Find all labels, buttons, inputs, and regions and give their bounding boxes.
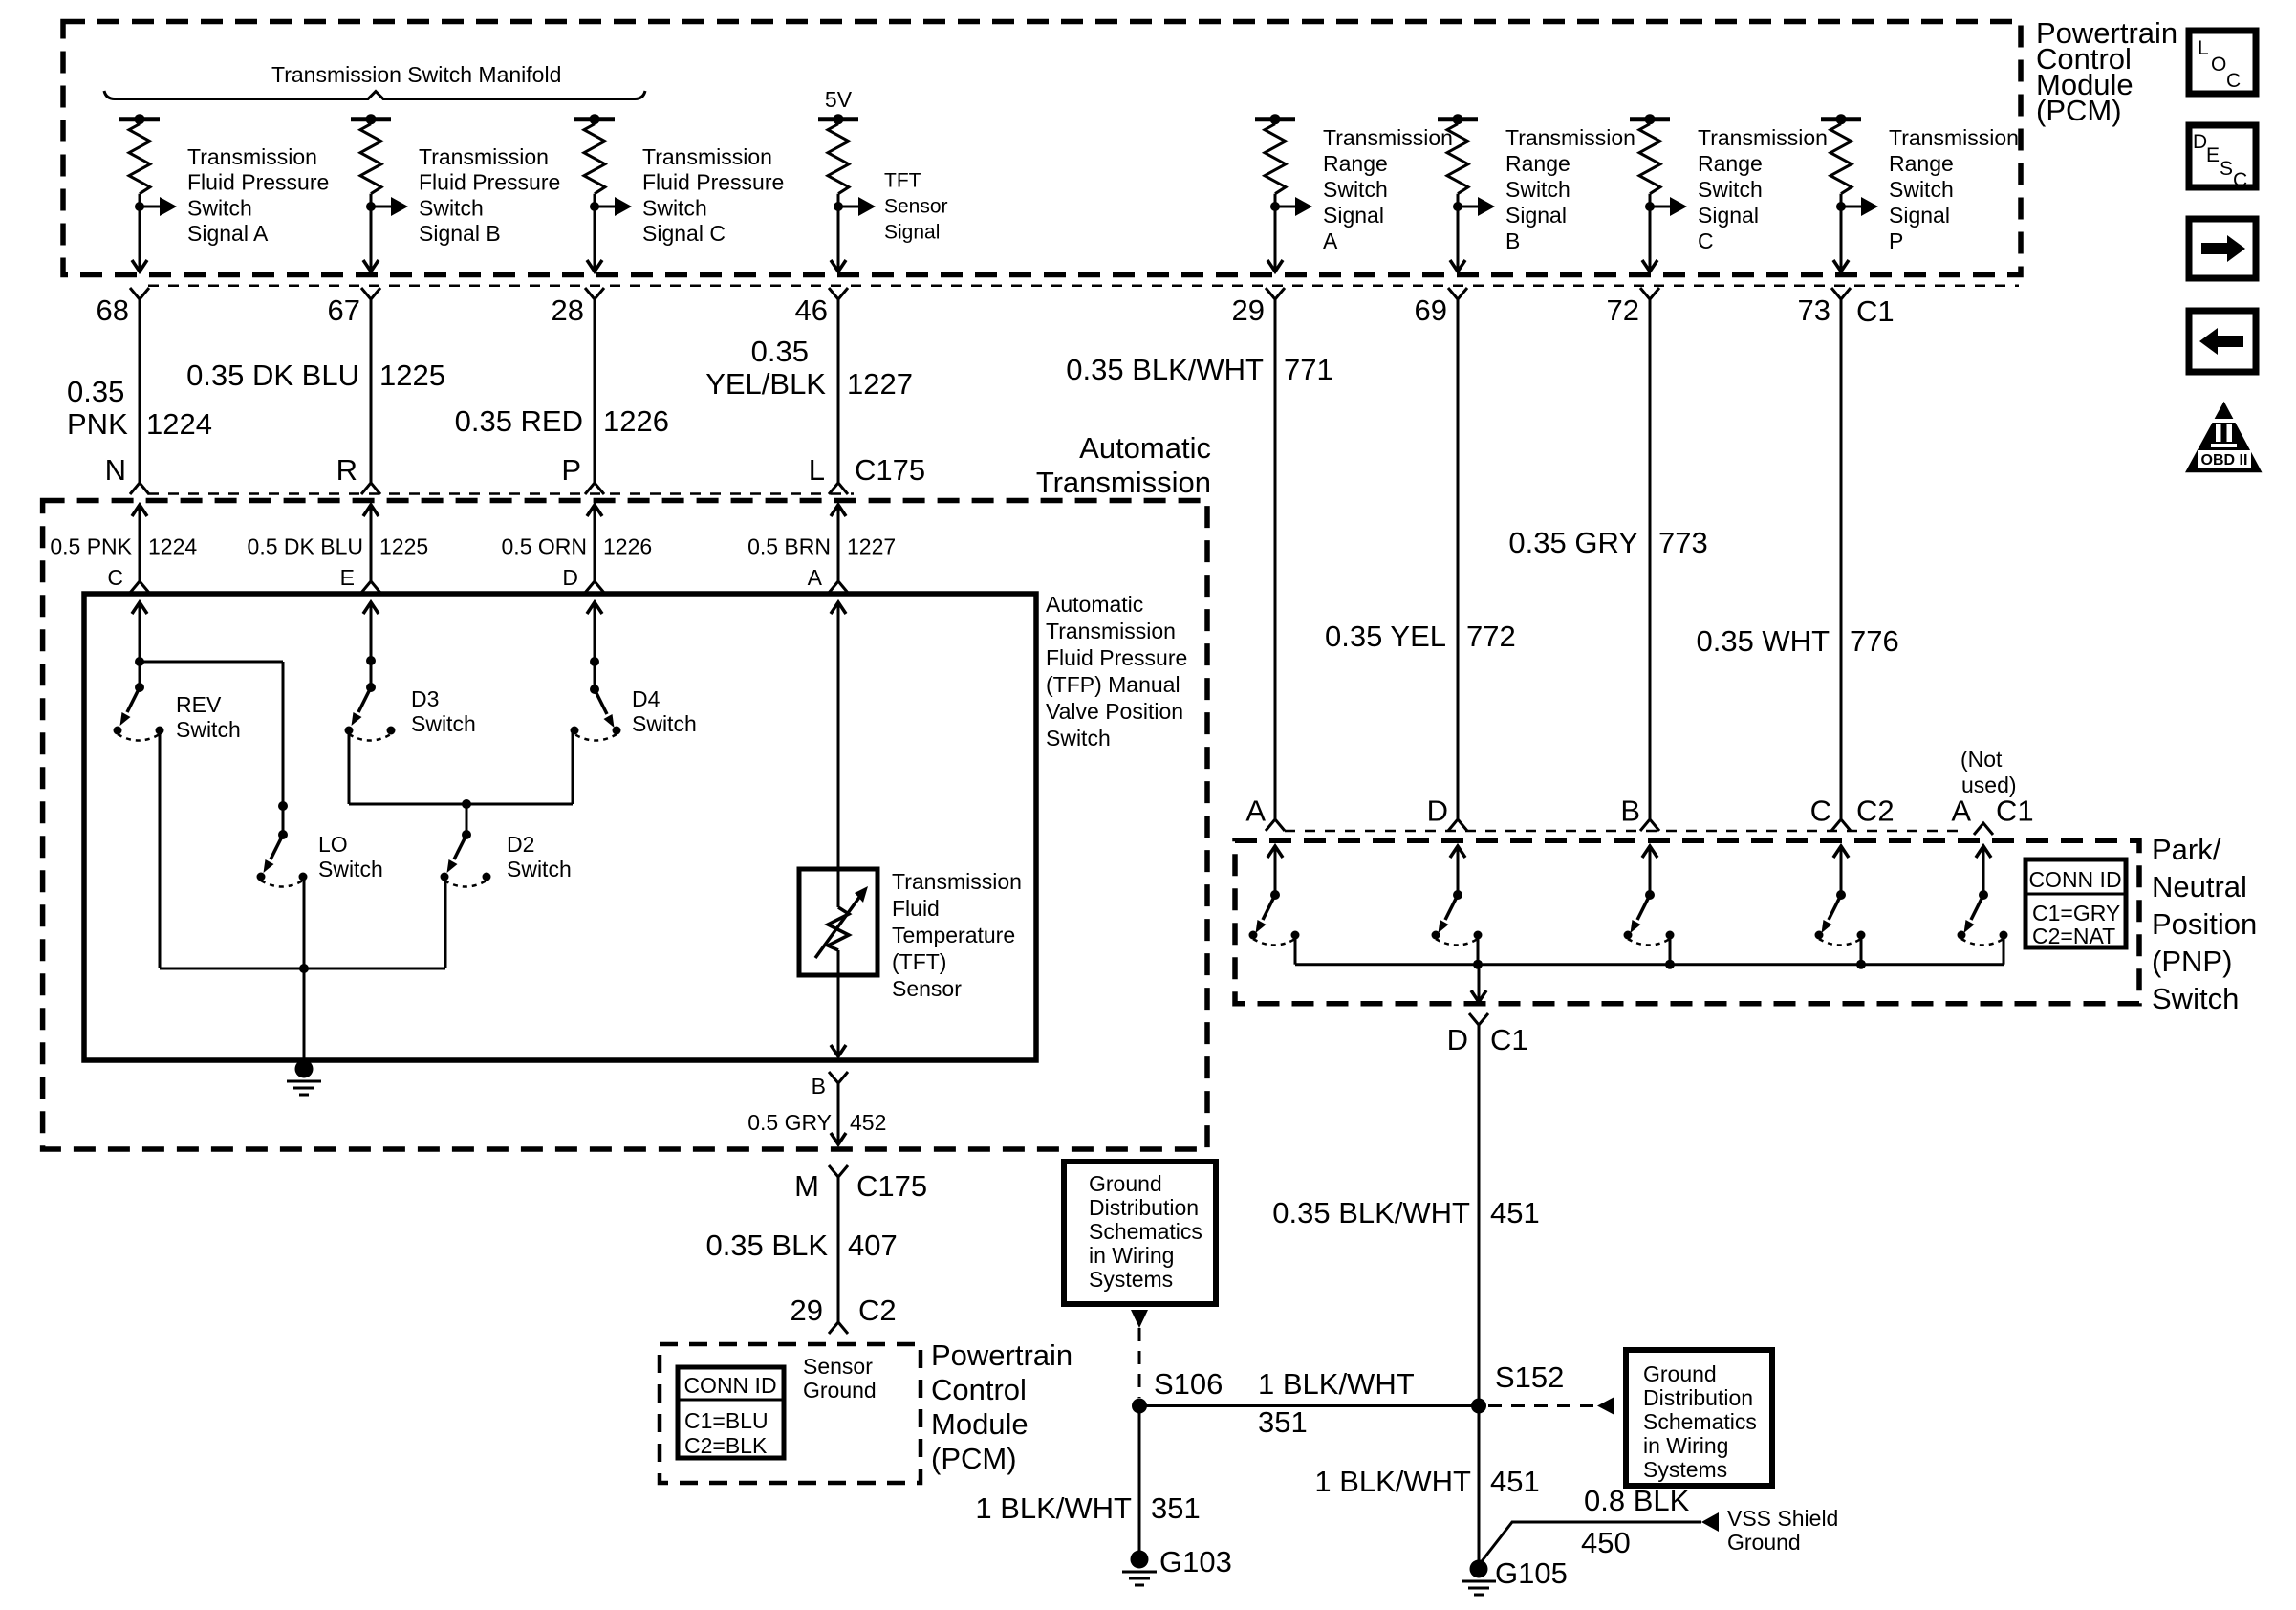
svg-text:Signal: Signal <box>1698 203 1759 228</box>
ground G103 <box>1131 1551 1149 1569</box>
svg-text:Fluid Pressure: Fluid Pressure <box>187 170 329 195</box>
resistor R TRS signal A at x=1334 <box>1255 117 1295 121</box>
wire 0.8 BLK 450 VSS shield <box>1479 1522 1701 1565</box>
svg-text:YEL/BLK: YEL/BLK <box>705 367 826 401</box>
wire TFT output down <box>837 975 840 1056</box>
svg-text:0.35: 0.35 <box>67 375 124 408</box>
svg-text:Automatic: Automatic <box>1079 431 1211 465</box>
splice S152 <box>1471 1399 1486 1414</box>
connector M C175 below AT box <box>829 1165 848 1177</box>
svg-text:Switch: Switch <box>642 195 707 220</box>
CONN ID box (PCM) <box>678 1367 784 1458</box>
svg-text:C175: C175 <box>856 1169 927 1203</box>
wire 3 into TFP box <box>594 602 596 662</box>
resistor R TRS signal P at x=1926 <box>1821 117 1861 121</box>
svg-text:0.35 DK BLU: 0.35 DK BLU <box>186 359 359 392</box>
svg-text:in Wiring: in Wiring <box>1643 1433 1728 1458</box>
svg-text:C2: C2 <box>858 1294 897 1327</box>
svg-text:B: B <box>812 1074 826 1099</box>
svg-text:Switch: Switch <box>318 857 383 881</box>
svg-text:(PCM): (PCM) <box>931 1442 1017 1475</box>
svg-text:Distribution: Distribution <box>1089 1195 1199 1220</box>
wire 0.5 DK BLU 1225 entering AT box <box>370 505 373 581</box>
svg-text:771: 771 <box>1284 353 1333 386</box>
wire 1 into TFP box <box>139 602 141 662</box>
svg-text:Range: Range <box>1505 151 1570 176</box>
svg-text:C1=BLU: C1=BLU <box>684 1408 769 1433</box>
svg-text:0.35 RED: 0.35 RED <box>455 404 583 438</box>
svg-text:Range: Range <box>1889 151 1954 176</box>
TFT sensor box <box>799 869 877 975</box>
connector fork + pin 67 <box>361 288 380 299</box>
svg-text:A: A <box>1323 228 1338 253</box>
resistor R TFP signal B at x=388 <box>351 117 391 121</box>
svg-text:Ground: Ground <box>1727 1530 1801 1555</box>
svg-text:Switch: Switch <box>2152 982 2239 1015</box>
svg-text:VSS Shield: VSS Shield <box>1727 1506 1838 1531</box>
TFP Manual Valve Position Switch box <box>84 594 1036 1060</box>
svg-text:0.8 BLK: 0.8 BLK <box>1584 1484 1690 1517</box>
wire 0.35 BLK 407 <box>837 1177 840 1322</box>
svg-text:D: D <box>1447 1023 1468 1056</box>
svg-text:C: C <box>2233 169 2247 191</box>
svg-text:1227: 1227 <box>847 534 896 559</box>
svg-text:C: C <box>2226 70 2241 92</box>
PNP switch 1 <box>1274 846 1277 895</box>
svg-text:Transmission: Transmission <box>1323 125 1453 150</box>
svg-text:407: 407 <box>848 1229 898 1262</box>
wire segment x=1926 to PNP <box>1840 299 1843 819</box>
svg-text:Switch: Switch <box>419 195 484 220</box>
wire 0.5 ORN 1226 entering AT box <box>594 505 596 581</box>
PNP output arrow to box edge <box>1478 965 1481 1002</box>
svg-text:0.5 GRY: 0.5 GRY <box>747 1110 832 1135</box>
svg-text:Signal A: Signal A <box>187 221 269 246</box>
svg-text:(TFT): (TFT) <box>892 949 946 974</box>
svg-text:R: R <box>336 453 357 487</box>
svg-text:5V: 5V <box>825 87 853 112</box>
svg-text:1226: 1226 <box>603 404 669 438</box>
svg-text:1 BLK/WHT: 1 BLK/WHT <box>975 1491 1132 1525</box>
PCM (sensor ground) dashed box <box>660 1344 921 1483</box>
svg-text:Sensor: Sensor <box>803 1354 873 1379</box>
svg-text:Neutral: Neutral <box>2152 870 2247 903</box>
connector fork + pin 29 <box>1266 288 1285 299</box>
svg-text:Switch: Switch <box>507 857 572 881</box>
svg-text:(PCM): (PCM) <box>2036 94 2122 127</box>
svg-text:1227: 1227 <box>847 367 913 401</box>
svg-text:0.5 ORN: 0.5 ORN <box>502 534 587 559</box>
svg-text:1226: 1226 <box>603 534 652 559</box>
svg-text:1 BLK/WHT: 1 BLK/WHT <box>1258 1367 1415 1401</box>
svg-text:69: 69 <box>1415 294 1447 327</box>
wire S106 down to G103 (1 BLK/WHT 351) <box>1138 1406 1141 1552</box>
connector fork + pin 46 <box>829 288 848 299</box>
svg-text:C: C <box>1698 228 1714 253</box>
wire 2 into TFP box <box>370 602 373 661</box>
svg-text:PNK: PNK <box>67 407 128 441</box>
svg-text:Switch: Switch <box>632 711 697 736</box>
connector fork + pin 72 <box>1640 288 1659 299</box>
icon back arrow <box>2189 311 2256 372</box>
svg-text:E: E <box>2206 144 2220 166</box>
svg-text:Signal C: Signal C <box>642 221 726 246</box>
svg-text:Transmission: Transmission <box>892 869 1022 894</box>
svg-text:Switch: Switch <box>1323 177 1388 202</box>
ground (TFP case ground) <box>295 1060 314 1078</box>
svg-text:S106: S106 <box>1154 1367 1223 1401</box>
svg-text:72: 72 <box>1607 294 1639 327</box>
wire S152 down to G105 (1 BLK/WHT 451) <box>1478 1406 1481 1562</box>
svg-text:1224: 1224 <box>146 407 212 441</box>
svg-text:A: A <box>808 565 823 590</box>
svg-text:0.35 WHT: 0.35 WHT <box>1696 624 1830 658</box>
svg-text:E: E <box>340 565 355 590</box>
svg-text:0.35 GRY: 0.35 GRY <box>1508 526 1638 559</box>
svg-text:0.35: 0.35 <box>751 335 809 368</box>
Ground Distribution Schematics box 1 <box>1064 1162 1216 1304</box>
PNP output bus <box>1294 935 1297 965</box>
svg-text:C2=NAT: C2=NAT <box>2032 924 2115 948</box>
svg-text:Transmission: Transmission <box>1505 125 1635 150</box>
svg-text:Signal: Signal <box>884 222 940 244</box>
svg-text:452: 452 <box>850 1110 886 1135</box>
svg-text:451: 451 <box>1490 1465 1540 1498</box>
svg-text:46: 46 <box>795 294 828 327</box>
svg-text:Switch: Switch <box>1698 177 1763 202</box>
svg-text:0.5 BRN: 0.5 BRN <box>747 534 831 559</box>
svg-text:P: P <box>1889 228 1903 253</box>
splice S106 <box>1132 1399 1147 1414</box>
svg-text:C1=GRY: C1=GRY <box>2032 901 2120 925</box>
svg-text:Ground: Ground <box>803 1378 877 1403</box>
svg-text:C2: C2 <box>1856 794 1895 828</box>
svg-text:0.5 DK BLU: 0.5 DK BLU <box>248 534 363 559</box>
Park/Neutral Position (PNP) Switch dashed box <box>1235 840 2139 1003</box>
wire D2 output down <box>444 877 447 968</box>
svg-text:Ground: Ground <box>1089 1171 1162 1196</box>
svg-text:0.35 BLK/WHT: 0.35 BLK/WHT <box>1272 1196 1470 1229</box>
svg-text:TFT: TFT <box>884 170 921 192</box>
svg-text:G103: G103 <box>1159 1545 1232 1578</box>
svg-text:Switch: Switch <box>1505 177 1570 202</box>
wire segment x=1334 to PNP <box>1274 299 1277 819</box>
connector 29 C2 <box>829 1322 848 1334</box>
svg-text:B: B <box>1505 228 1520 253</box>
svg-text:D: D <box>2193 131 2207 153</box>
svg-text:S: S <box>2220 158 2233 180</box>
svg-text:Transmission: Transmission <box>642 144 772 169</box>
svg-text:Fluid Pressure: Fluid Pressure <box>1046 645 1187 670</box>
REV switch <box>139 662 141 687</box>
svg-text:C: C <box>1810 794 1831 828</box>
svg-text:0.35 YEL: 0.35 YEL <box>1325 620 1446 653</box>
svg-text:G105: G105 <box>1495 1556 1568 1590</box>
thin dashed connector line row 2 (C175) <box>148 492 854 495</box>
svg-text:O: O <box>2211 54 2226 76</box>
wire S106 to S152 (1 BLK/WHT 351) <box>1139 1404 1480 1407</box>
svg-text:(TFP) Manual: (TFP) Manual <box>1046 672 1180 697</box>
svg-text:A: A <box>1951 794 1971 828</box>
svg-text:0.35 BLK/WHT: 0.35 BLK/WHT <box>1066 353 1264 386</box>
junction dot wire1 branch <box>135 657 144 666</box>
wire segment x=388 rows1-2 <box>370 299 373 483</box>
wire segment x=1525 to PNP <box>1457 299 1460 819</box>
connector pin B below TFP box <box>829 1072 848 1083</box>
Powertrain Control Module (PCM) dashed box <box>63 22 2021 275</box>
svg-text:Fluid: Fluid <box>892 896 940 921</box>
svg-text:(PNP): (PNP) <box>2152 945 2232 978</box>
D3 switch <box>366 656 376 665</box>
svg-text:Automatic: Automatic <box>1046 592 1143 617</box>
svg-text:776: 776 <box>1850 624 1899 658</box>
wire 0.5 GRY 452 <box>837 1083 840 1144</box>
svg-text:D4: D4 <box>632 686 661 711</box>
wire branch to LO switch <box>140 661 283 664</box>
svg-text:A: A <box>1245 794 1266 828</box>
svg-text:Distribution: Distribution <box>1643 1385 1753 1410</box>
svg-text:LO: LO <box>318 832 348 857</box>
PNP switch 4 <box>1840 846 1843 895</box>
svg-text:Systems: Systems <box>1089 1267 1173 1292</box>
svg-text:Transmission: Transmission <box>419 144 549 169</box>
connector D C1 below PNP box <box>1469 1013 1488 1025</box>
svg-text:L: L <box>2198 37 2209 59</box>
svg-text:351: 351 <box>1258 1405 1308 1439</box>
resistor R TRS signal B at x=1525 <box>1438 117 1478 121</box>
wire segment x=877 rows1-2 <box>837 299 840 483</box>
svg-text:451: 451 <box>1490 1196 1540 1229</box>
svg-text:Systems: Systems <box>1643 1457 1727 1482</box>
icon LOC <box>2189 31 2256 94</box>
svg-text:C1: C1 <box>1996 794 2034 828</box>
resistor R TRS signal C at x=1726 <box>1630 117 1670 121</box>
svg-text:C1: C1 <box>1856 294 1895 328</box>
D2 switch <box>466 804 468 835</box>
svg-text:28: 28 <box>552 294 584 327</box>
TFT thermistor symbol <box>837 869 840 907</box>
dashed wire to S106 <box>1138 1328 1141 1398</box>
wire segment x=146 rows1-2 <box>139 299 141 483</box>
svg-text:0.35 BLK: 0.35 BLK <box>705 1229 828 1262</box>
svg-text:1225: 1225 <box>379 359 445 392</box>
LO switch <box>278 801 288 811</box>
svg-text:0.5 PNK: 0.5 PNK <box>50 534 132 559</box>
svg-text:Sensor: Sensor <box>884 196 948 218</box>
svg-text:Valve Position: Valve Position <box>1046 699 1183 724</box>
junction D3/D4 outputs <box>462 799 471 809</box>
svg-text:Position: Position <box>2152 907 2257 941</box>
svg-text:Module: Module <box>931 1407 1029 1441</box>
wire common output line <box>160 968 445 970</box>
wire LO output down to ground bus <box>303 877 306 1065</box>
svg-text:67: 67 <box>328 294 360 327</box>
D4 switch <box>590 657 599 666</box>
svg-text:Signal: Signal <box>1505 203 1567 228</box>
Automatic Transmission dashed box <box>43 501 1207 1150</box>
svg-text:D2: D2 <box>507 832 534 857</box>
svg-text:Fluid Pressure: Fluid Pressure <box>419 170 560 195</box>
svg-text:D3: D3 <box>411 686 439 711</box>
resistor R TFT sensor at x=877 <box>818 117 858 121</box>
svg-text:Transmission: Transmission <box>1698 125 1828 150</box>
svg-text:D: D <box>1427 794 1448 828</box>
wire 0.5 BRN 1227 entering AT box <box>837 505 840 581</box>
svg-text:450: 450 <box>1581 1526 1631 1559</box>
svg-text:Schematics: Schematics <box>1643 1409 1757 1434</box>
svg-text:Transmission: Transmission <box>1036 466 1211 499</box>
svg-text:(Not: (Not <box>1960 747 2003 772</box>
svg-text:CONN ID: CONN ID <box>683 1373 776 1398</box>
icon DESC <box>2189 125 2256 187</box>
wire segment x=1726 to PNP <box>1649 299 1652 819</box>
svg-text:Control: Control <box>931 1373 1027 1406</box>
svg-text:68: 68 <box>97 294 129 327</box>
svg-text:Powertrain: Powertrain <box>931 1338 1072 1372</box>
arrow from GD box 1 <box>1131 1310 1148 1328</box>
icon OBD II triangle <box>2185 402 2263 473</box>
svg-text:29: 29 <box>1232 294 1265 327</box>
svg-text:772: 772 <box>1466 620 1516 653</box>
svg-text:C1: C1 <box>1490 1023 1528 1056</box>
svg-text:B: B <box>1620 794 1640 828</box>
svg-text:1225: 1225 <box>379 534 428 559</box>
svg-text:Signal B: Signal B <box>419 221 501 246</box>
wire D4 output down <box>572 730 574 804</box>
svg-text:29: 29 <box>791 1294 823 1327</box>
Ground Distribution Schematics box 2 <box>1626 1350 1772 1486</box>
PNP switch 2 <box>1457 846 1460 895</box>
wire D3 output down <box>348 730 351 804</box>
svg-text:Park/: Park/ <box>2152 833 2221 866</box>
wire 4 (TFT) into TFP area down to TFT sensor <box>837 602 840 869</box>
svg-text:Switch: Switch <box>411 711 476 736</box>
PNP switch 3 <box>1649 846 1652 895</box>
wire 0.35 BLK/WHT 451 <box>1478 1025 1481 1406</box>
svg-text:Temperature: Temperature <box>892 923 1015 947</box>
PNP switch 5 <box>1982 846 1985 895</box>
svg-text:Signal: Signal <box>1323 203 1384 228</box>
CONN ID box (PNP) <box>2025 859 2126 947</box>
svg-text:Transmission: Transmission <box>187 144 317 169</box>
svg-text:P: P <box>561 453 581 487</box>
icon forward arrow <box>2189 219 2256 278</box>
svg-text:Switch: Switch <box>187 195 252 220</box>
svg-text:OBD II: OBD II <box>2201 452 2248 468</box>
svg-text:1224: 1224 <box>148 534 197 559</box>
junction dot at ground tap <box>299 964 309 973</box>
svg-text:Switch: Switch <box>1046 726 1111 751</box>
svg-text:Fluid Pressure: Fluid Pressure <box>642 170 784 195</box>
brace over transmission switch manifold <box>104 91 645 99</box>
svg-text:L: L <box>809 453 825 487</box>
resistor R TFP signal A at x=146 <box>119 117 160 121</box>
svg-text:D: D <box>562 565 578 590</box>
dashed reference wire from S152 to GD box 2 <box>1488 1404 1594 1407</box>
svg-text:Sensor: Sensor <box>892 976 962 1001</box>
connector fork + pin 68 <box>130 288 149 299</box>
svg-text:Transmission: Transmission <box>1046 619 1176 643</box>
svg-text:CONN ID: CONN ID <box>2028 867 2121 892</box>
svg-text:Ground: Ground <box>1643 1361 1717 1386</box>
wire segment x=622 rows1-2 <box>594 299 596 483</box>
thin dashed connector line row 3 (PNP) <box>1285 830 1958 833</box>
connector fork + pin 28 <box>585 288 604 299</box>
resistor R TFP signal C at x=622 <box>574 117 615 121</box>
svg-text:Range: Range <box>1323 151 1388 176</box>
svg-text:in Wiring: in Wiring <box>1089 1243 1174 1268</box>
svg-text:S152: S152 <box>1495 1360 1564 1394</box>
svg-text:REV: REV <box>176 692 222 717</box>
wire REV output down <box>159 730 162 968</box>
svg-text:Schematics: Schematics <box>1089 1219 1202 1244</box>
svg-text:Switch: Switch <box>176 717 241 742</box>
svg-text:C175: C175 <box>855 453 925 487</box>
wire 0.5 PNK 1224 entering AT box <box>139 505 141 581</box>
svg-text:M: M <box>794 1169 819 1203</box>
svg-text:C: C <box>107 565 123 590</box>
junction dots on PNP bus <box>1473 960 1483 969</box>
svg-text:Signal: Signal <box>1889 203 1950 228</box>
svg-text:351: 351 <box>1151 1491 1201 1525</box>
svg-text:Transmission Switch Manifold: Transmission Switch Manifold <box>271 62 561 87</box>
svg-text:N: N <box>105 453 126 487</box>
connector fork + pin 69 <box>1448 288 1467 299</box>
svg-text:Switch: Switch <box>1889 177 1954 202</box>
thin dashed connector line row 1 <box>148 284 2019 287</box>
svg-text:773: 773 <box>1658 526 1708 559</box>
connector fork + pin 73 <box>1831 288 1851 299</box>
svg-text:C2=BLK: C2=BLK <box>684 1433 768 1458</box>
svg-text:Transmission: Transmission <box>1889 125 2019 150</box>
ground G105 <box>1470 1560 1488 1578</box>
svg-text:1 BLK/WHT: 1 BLK/WHT <box>1314 1465 1471 1498</box>
svg-text:Range: Range <box>1698 151 1763 176</box>
svg-text:73: 73 <box>1798 294 1830 327</box>
